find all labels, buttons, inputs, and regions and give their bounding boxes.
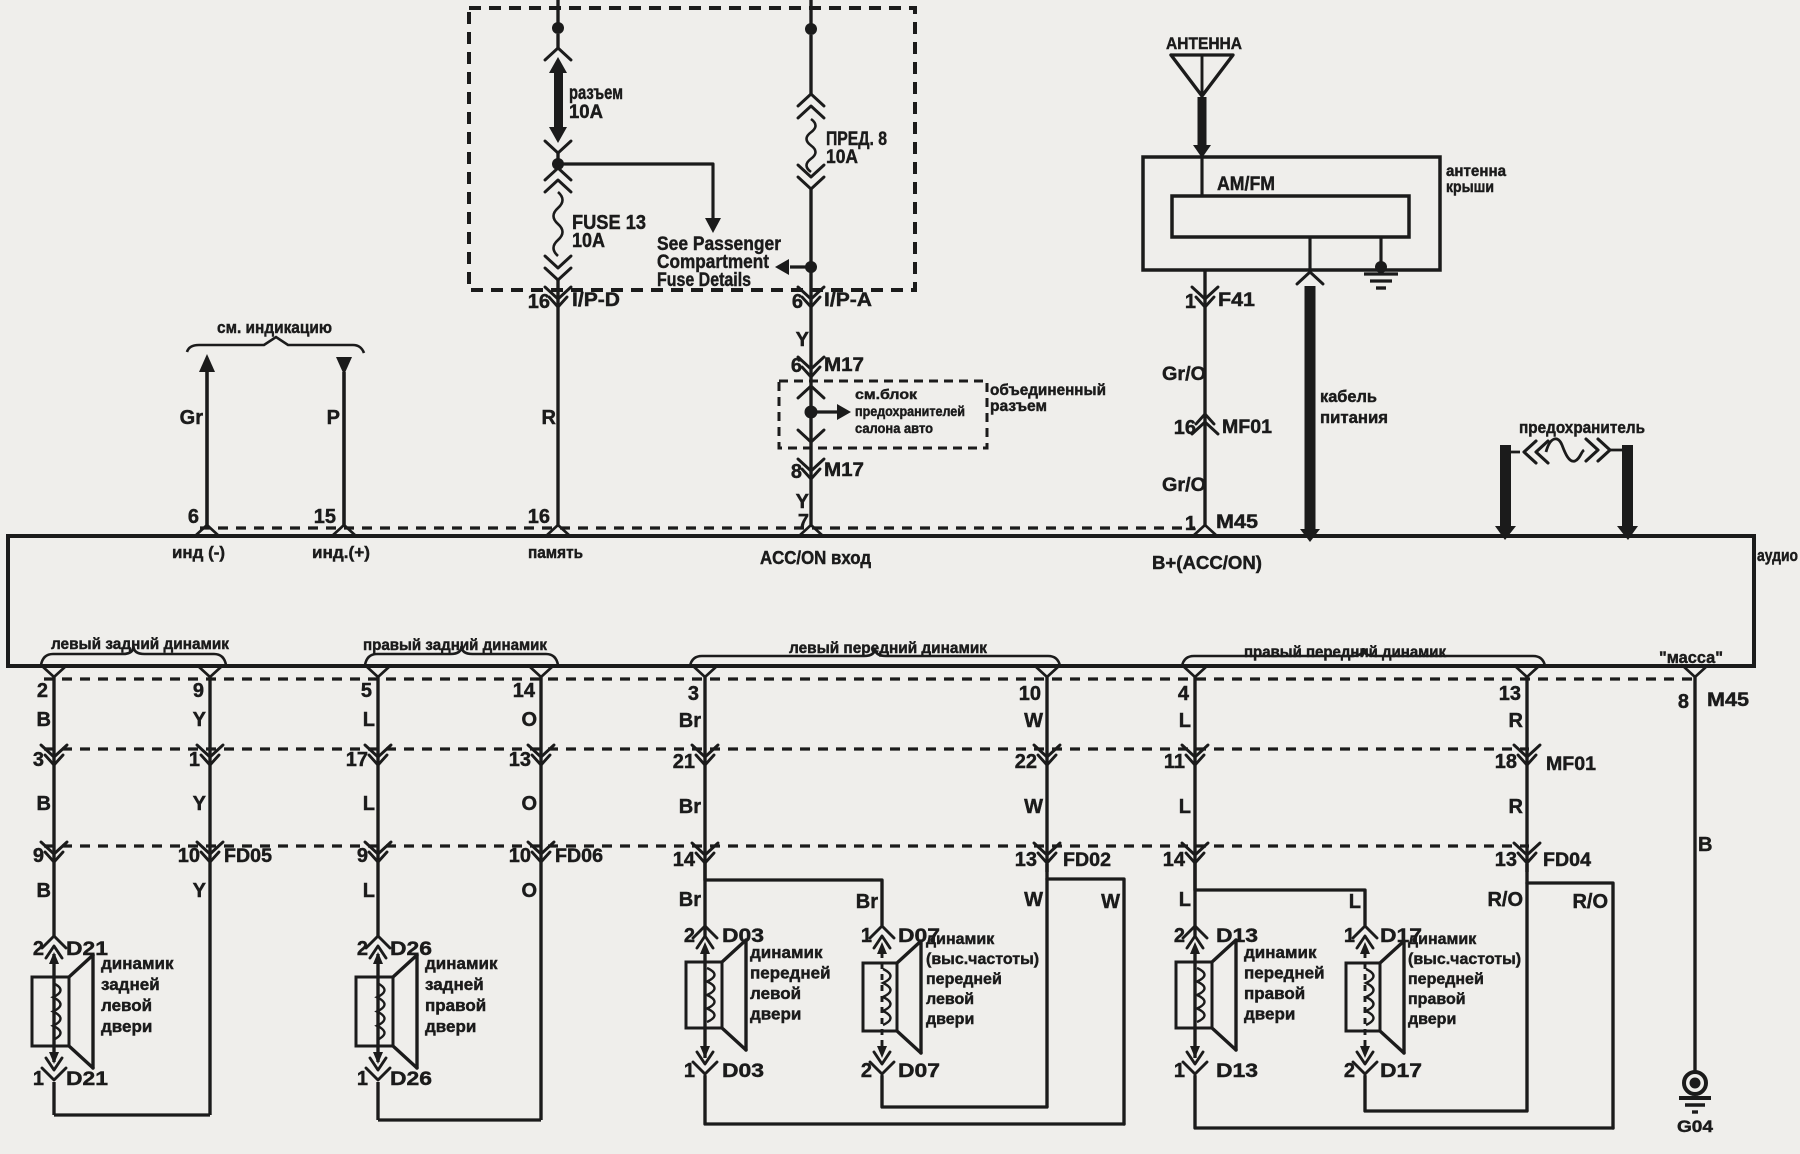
svg-text:1: 1 xyxy=(861,925,872,947)
wire stub top left xyxy=(556,0,559,24)
svg-text:2: 2 xyxy=(357,938,368,960)
svg-text:Y: Y xyxy=(796,491,810,513)
wire xyxy=(556,34,559,50)
connector FD06 pin 9 xyxy=(365,842,391,854)
wire power cable from module xyxy=(1308,237,1311,270)
svg-text:Gr/O: Gr/O xyxy=(1162,364,1206,385)
connector row2 pin 13 xyxy=(528,745,554,757)
svg-text:инд (-): инд (-) xyxy=(172,543,225,562)
svg-text:динамик: динамик xyxy=(750,943,823,962)
connector FD02 pin 13 xyxy=(1034,843,1060,855)
junction dot xyxy=(805,261,817,273)
arrow down индикация plus xyxy=(336,357,352,375)
connector 1 D07 xyxy=(870,926,894,938)
svg-text:1: 1 xyxy=(1174,1060,1185,1082)
wire D13 feed pin 4 xyxy=(1183,666,1207,677)
svg-text:I/P-A: I/P-A xyxy=(824,290,872,311)
ground symbol antenna xyxy=(1364,272,1398,275)
svg-text:16: 16 xyxy=(528,506,550,528)
connector 2 D07 xyxy=(870,1062,894,1074)
arrow to fuse details text xyxy=(790,265,811,268)
svg-text:R/O: R/O xyxy=(1487,889,1523,911)
junction dot node to fuse details xyxy=(552,158,564,170)
connector 16 I/P-D xyxy=(545,287,571,299)
svg-text:двери: двери xyxy=(101,1017,152,1036)
svg-text:B: B xyxy=(1698,834,1712,856)
wire ACC feed xyxy=(809,290,812,527)
wire D13 return xyxy=(1195,1076,1613,1128)
svg-text:двери: двери xyxy=(926,1011,974,1028)
svg-text:10A: 10A xyxy=(572,230,605,252)
svg-text:R/O: R/O xyxy=(1572,891,1608,913)
svg-text:13: 13 xyxy=(509,749,531,771)
svg-text:передней: передней xyxy=(1244,964,1325,983)
svg-text:3: 3 xyxy=(33,749,44,771)
svg-text:1: 1 xyxy=(33,1068,44,1090)
svg-text:динамик: динамик xyxy=(1244,943,1317,962)
connector FD04 pin 13 xyxy=(1514,843,1540,855)
svg-text:10A: 10A xyxy=(569,102,603,123)
speaker D21 xyxy=(32,977,69,1046)
svg-text:FD04: FD04 xyxy=(1543,850,1591,871)
wire stub top xyxy=(809,0,812,25)
connector row3 pin 14 xyxy=(692,843,718,855)
svg-text:P: P xyxy=(327,407,340,429)
brace right front xyxy=(1182,648,1545,666)
svg-text:L: L xyxy=(1179,710,1191,732)
svg-text:правой: правой xyxy=(425,996,486,1015)
brace left front xyxy=(690,648,1060,666)
connector 2 D17 xyxy=(1353,1062,1377,1074)
svg-text:Br: Br xyxy=(679,889,701,911)
svg-text:D17: D17 xyxy=(1380,1061,1422,1082)
wire P xyxy=(342,372,346,527)
svg-text:13: 13 xyxy=(1495,849,1517,871)
wire module ground xyxy=(1379,237,1382,262)
harness dashed top row xyxy=(200,526,1195,529)
wire FD04 feed pin 13 xyxy=(1515,666,1539,677)
svg-text:правый передний динамик: правый передний динамик xyxy=(1244,644,1447,661)
connector row2 pin 21 xyxy=(692,745,718,757)
junction dot xyxy=(805,23,817,35)
connector row2 pin 1 xyxy=(197,745,223,757)
connector 1 D26 xyxy=(366,1068,390,1080)
svg-text:память: память xyxy=(528,543,583,562)
tweeter speaker D17 xyxy=(1346,963,1380,1031)
svg-text:Br: Br xyxy=(679,796,701,818)
svg-text:G04: G04 xyxy=(1677,1117,1714,1136)
wire through speaker D26 xyxy=(376,954,379,1062)
svg-text:10: 10 xyxy=(509,845,531,867)
svg-text:9: 9 xyxy=(33,845,44,867)
svg-text:предохранителей: предохранителей xyxy=(855,403,965,419)
svg-text:D21: D21 xyxy=(66,1069,109,1090)
wire FD02 feed pin 10 xyxy=(1035,666,1059,677)
svg-text:W: W xyxy=(1024,796,1043,818)
connector row3 pin 14 xyxy=(1182,843,1208,855)
wire branch return xyxy=(1047,879,1124,1124)
svg-text:4: 4 xyxy=(1178,683,1190,705)
svg-text:D07: D07 xyxy=(898,1061,940,1082)
svg-text:Gr: Gr xyxy=(180,407,204,429)
connector FD05 pin 10 xyxy=(197,842,223,854)
svg-text:Fuse Details: Fuse Details xyxy=(657,270,751,291)
fuse ПРЕД. 8 10A xyxy=(807,119,816,172)
svg-text:6: 6 xyxy=(791,355,802,377)
svg-text:8: 8 xyxy=(791,461,802,483)
svg-text:10A: 10A xyxy=(826,147,858,168)
connector 2 D13 xyxy=(1183,926,1207,938)
svg-text:R: R xyxy=(1509,710,1524,732)
wire D21 minus from pin 2 xyxy=(42,666,66,677)
svg-text:2: 2 xyxy=(37,680,48,702)
wire tweeter dashed xyxy=(881,952,884,1054)
svg-text:см.блок: см.блок xyxy=(855,386,918,402)
svg-text:10: 10 xyxy=(178,845,200,867)
svg-text:22: 22 xyxy=(1015,751,1037,773)
wire FD02 down segment xyxy=(1045,864,1048,1107)
svg-text:АНТЕННА: АНТЕННА xyxy=(1166,34,1242,53)
connector chevron xyxy=(1297,272,1323,284)
svg-text:L: L xyxy=(1179,796,1191,818)
svg-text:B+(ACC/ON): B+(ACC/ON) xyxy=(1152,553,1262,573)
connector 2 D26 xyxy=(366,936,390,948)
svg-text:аудио: аудио xyxy=(1757,546,1798,565)
dashed box объединенный разъем xyxy=(779,381,987,448)
svg-text:Y: Y xyxy=(796,329,810,351)
svg-text:D26: D26 xyxy=(390,1069,432,1090)
svg-text:антенна: антенна xyxy=(1446,163,1506,180)
svg-text:L: L xyxy=(1349,891,1361,913)
arrow up индикация minus xyxy=(199,354,215,372)
connector row2 pin 3 xyxy=(41,745,67,757)
connector double chevron xyxy=(545,256,571,268)
connector row2 pin 18 xyxy=(1514,745,1540,757)
svg-text:16: 16 xyxy=(1174,417,1196,439)
connector разъем 10A double arrow xyxy=(549,57,567,73)
svg-text:L: L xyxy=(363,709,375,731)
wire D21 return loop xyxy=(52,1082,55,1115)
wire D17 return xyxy=(1365,1076,1527,1111)
wire D07 return xyxy=(882,1076,1047,1107)
svg-text:инд.(+): инд.(+) xyxy=(312,543,370,562)
wire tweeter dashed xyxy=(1364,952,1367,1054)
svg-text:разъем: разъем xyxy=(569,83,623,104)
svg-text:салона авто: салона авто xyxy=(855,420,933,436)
svg-text:14: 14 xyxy=(1163,849,1186,871)
svg-text:21: 21 xyxy=(673,751,695,773)
svg-text:двери: двери xyxy=(1244,1005,1295,1024)
svg-text:передней: передней xyxy=(926,971,1002,988)
connector 16 MF01 xyxy=(1192,422,1218,434)
svg-text:8: 8 xyxy=(1678,691,1689,713)
antenna symbol xyxy=(1171,55,1233,96)
svg-text:16: 16 xyxy=(528,291,550,313)
harness dashed row 3 xyxy=(44,844,1529,847)
svg-text:9: 9 xyxy=(357,845,368,867)
svg-text:B: B xyxy=(37,880,51,902)
svg-text:F41: F41 xyxy=(1218,290,1255,311)
svg-text:правой: правой xyxy=(1408,991,1466,1008)
svg-text:L: L xyxy=(363,880,375,902)
svg-text:M17: M17 xyxy=(824,355,864,376)
svg-text:D13: D13 xyxy=(1216,1061,1258,1082)
svg-text:1: 1 xyxy=(189,749,200,771)
brace left rear xyxy=(41,646,226,665)
arrowhead xyxy=(705,218,721,233)
wire масса B xyxy=(1683,666,1707,677)
antenna module inner box xyxy=(1172,196,1409,237)
connector chevron xyxy=(545,48,571,60)
svg-text:левый передний динамик: левый передний динамик xyxy=(789,640,988,657)
svg-text:Y: Y xyxy=(193,709,207,731)
svg-text:R: R xyxy=(1509,796,1524,818)
svg-text:1: 1 xyxy=(1185,291,1196,313)
svg-text:MF01: MF01 xyxy=(1222,417,1272,438)
wire xyxy=(809,188,812,290)
connector 6 M17 xyxy=(798,357,824,369)
connector FD05 pin 9 xyxy=(41,842,67,854)
wire through speaker D21 xyxy=(52,954,55,1062)
wire through speaker D03 xyxy=(703,950,706,1058)
svg-text:R: R xyxy=(542,407,557,429)
svg-text:FD02: FD02 xyxy=(1063,850,1111,871)
connector 6 I/P-A xyxy=(798,287,824,299)
svg-text:Y: Y xyxy=(193,880,207,902)
svg-text:O: O xyxy=(521,793,537,815)
svg-text:"масса": "масса" xyxy=(1659,648,1723,667)
connector chevron xyxy=(798,386,824,398)
wire F41 branch xyxy=(1203,270,1206,527)
svg-text:передней: передней xyxy=(1408,971,1484,988)
connector 8 M17 xyxy=(798,459,824,471)
junction dot ground xyxy=(1375,261,1387,273)
svg-text:18: 18 xyxy=(1495,751,1517,773)
svg-text:кабель: кабель xyxy=(1320,387,1377,406)
fuse FUSE 13 xyxy=(554,192,563,256)
wire D26 plus from pin 14 xyxy=(529,666,553,677)
svg-text:2: 2 xyxy=(33,938,44,960)
speaker D13 xyxy=(1176,962,1212,1028)
svg-text:Gr/O: Gr/O xyxy=(1162,475,1206,496)
wire branch to tweeter xyxy=(1195,862,1365,925)
connector chevron xyxy=(798,430,824,442)
svg-text:крыши: крыши xyxy=(1446,179,1494,196)
svg-text:FD06: FD06 xyxy=(555,846,603,867)
wire to see-passenger arrow xyxy=(558,164,713,220)
speaker D26 xyxy=(356,977,393,1046)
svg-text:Br: Br xyxy=(856,891,878,913)
wire xyxy=(556,152,559,162)
roof antenna box AM/FM xyxy=(1143,157,1440,270)
svg-text:объединенный: объединенный xyxy=(990,382,1106,399)
svg-text:2: 2 xyxy=(1174,925,1185,947)
svg-text:правый задний динамик: правый задний динамик xyxy=(363,637,548,654)
connector 1 D03 xyxy=(693,1062,717,1074)
svg-text:динамик: динамик xyxy=(101,954,174,973)
svg-text:разъем: разъем xyxy=(990,398,1047,415)
connector 1 F41 xyxy=(1192,287,1218,299)
connector 1 D13 xyxy=(1183,1062,1207,1074)
connector double chevron xyxy=(798,165,824,177)
arrow см.блок xyxy=(817,410,838,413)
wire D03 return xyxy=(705,1076,1124,1124)
wire memory R xyxy=(556,280,559,527)
wire D03 feed pin 3 xyxy=(693,666,717,677)
connector row2 pin 11 xyxy=(1182,745,1208,757)
svg-text:динамик: динамик xyxy=(926,931,995,948)
svg-text:O: O xyxy=(521,880,537,902)
wire D21 plus from pin 9 xyxy=(198,666,222,677)
wire Gr xyxy=(205,372,209,527)
harness dashed row 2 xyxy=(44,747,1529,750)
wire through speaker D13 xyxy=(1193,950,1196,1058)
svg-text:W: W xyxy=(1024,889,1043,911)
svg-text:L: L xyxy=(1179,889,1191,911)
svg-text:динамик: динамик xyxy=(425,954,498,973)
speaker D03 xyxy=(686,962,722,1028)
svg-text:D03: D03 xyxy=(722,1061,764,1082)
connector 1 D17 xyxy=(1353,926,1377,938)
svg-text:13: 13 xyxy=(1015,849,1037,871)
svg-text:B: B xyxy=(37,709,51,731)
svg-text:2: 2 xyxy=(684,925,695,947)
connector 1 D21 xyxy=(42,1068,66,1080)
svg-text:B: B xyxy=(37,793,51,815)
svg-text:предохранитель: предохранитель xyxy=(1519,418,1645,437)
svg-text:L: L xyxy=(363,793,375,815)
connector double chevron xyxy=(545,168,571,180)
svg-text:правой: правой xyxy=(1244,984,1305,1003)
svg-text:MF01: MF01 xyxy=(1546,754,1596,775)
svg-text:см. индикацию: см. индикацию xyxy=(217,318,332,337)
svg-text:двери: двери xyxy=(750,1005,801,1024)
tweeter speaker D07 xyxy=(863,963,897,1031)
svg-text:питания: питания xyxy=(1320,408,1388,427)
svg-text:передней: передней xyxy=(750,964,831,983)
brace индикация xyxy=(187,337,364,353)
dashed box fuse details xyxy=(469,8,915,290)
svg-text:левой: левой xyxy=(101,996,152,1015)
svg-text:W: W xyxy=(1101,891,1120,913)
svg-text:2: 2 xyxy=(861,1060,872,1082)
ground G04 symbol xyxy=(1684,1072,1706,1094)
svg-text:M17: M17 xyxy=(824,460,864,481)
wire FD04 down segment xyxy=(1525,864,1528,1111)
svg-text:1: 1 xyxy=(1344,925,1355,947)
harness dashed row 1 xyxy=(44,677,1695,680)
wire D26 minus from pin 5 xyxy=(366,666,390,677)
connector row2 pin 22 xyxy=(1034,745,1060,757)
svg-text:I/P-D: I/P-D xyxy=(572,290,620,311)
wire antenna to module xyxy=(1200,157,1203,196)
svg-text:FD05: FD05 xyxy=(224,846,272,867)
svg-text:15: 15 xyxy=(314,506,336,528)
svg-text:AM/FM: AM/FM xyxy=(1217,174,1275,195)
svg-text:задней: задней xyxy=(425,975,484,994)
svg-text:3: 3 xyxy=(688,683,699,705)
audio unit box xyxy=(8,536,1754,666)
svg-text:двери: двери xyxy=(425,1017,476,1036)
connector double chevron xyxy=(798,94,824,106)
svg-text:6: 6 xyxy=(188,506,199,528)
wire branch return xyxy=(1527,883,1613,1128)
fuse element xyxy=(1500,445,1511,527)
svg-text:M45: M45 xyxy=(1707,690,1749,711)
connector chevron xyxy=(545,141,571,153)
svg-text:динамик: динамик xyxy=(1408,931,1477,948)
svg-text:левой: левой xyxy=(750,984,801,1003)
brace right rear xyxy=(365,646,558,665)
svg-text:ACC/ON вход: ACC/ON вход xyxy=(760,548,872,568)
svg-text:O: O xyxy=(521,709,537,731)
connector 2 D03 xyxy=(693,926,717,938)
svg-text:13: 13 xyxy=(1499,683,1521,705)
svg-text:левой: левой xyxy=(926,991,974,1008)
svg-text:(выс.частоты): (выс.частоты) xyxy=(1408,951,1521,968)
junction dot xyxy=(805,406,818,419)
junction dot xyxy=(552,22,564,34)
antenna lead thick arrow xyxy=(1198,97,1207,145)
svg-text:14: 14 xyxy=(513,680,536,702)
svg-text:двери: двери xyxy=(1408,1011,1456,1028)
svg-text:(выс.частоты): (выс.частоты) xyxy=(926,951,1039,968)
svg-text:14: 14 xyxy=(673,849,696,871)
wire D26 return loop xyxy=(376,1082,379,1120)
svg-text:Y: Y xyxy=(193,793,207,815)
wire branch to tweeter xyxy=(705,862,882,925)
wire xyxy=(809,35,812,96)
svg-text:1: 1 xyxy=(357,1068,368,1090)
svg-text:2: 2 xyxy=(1344,1060,1355,1082)
svg-text:левый задний динамик: левый задний динамик xyxy=(51,636,230,653)
svg-text:17: 17 xyxy=(346,749,368,771)
svg-text:W: W xyxy=(1024,710,1043,732)
connector 2 D21 xyxy=(42,936,66,948)
connector row2 pin 17 xyxy=(365,745,391,757)
svg-text:1: 1 xyxy=(1185,513,1196,535)
connector FD06 pin 10 xyxy=(528,842,554,854)
svg-text:5: 5 xyxy=(361,680,372,702)
svg-text:задней: задней xyxy=(101,975,160,994)
svg-text:11: 11 xyxy=(1164,751,1185,773)
svg-text:9: 9 xyxy=(193,680,204,702)
svg-text:M45: M45 xyxy=(1216,512,1258,533)
svg-text:10: 10 xyxy=(1019,683,1041,705)
power cable thick xyxy=(1305,286,1316,529)
svg-text:6: 6 xyxy=(792,291,803,313)
svg-text:Br: Br xyxy=(679,710,701,732)
svg-text:1: 1 xyxy=(684,1060,695,1082)
